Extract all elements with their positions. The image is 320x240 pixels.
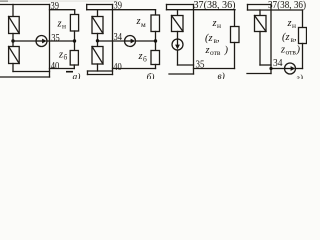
svg-text:,: , (294, 32, 297, 43)
svg-text:б: б (143, 55, 147, 64)
svg-text:40: 40 (51, 60, 60, 72)
wire fragment a (12, 64, 14, 72)
wire middle fragment a (47, 40, 75, 42)
resistor z_b box fragment b (151, 51, 160, 65)
resistor z_n box fragment a (70, 15, 78, 32)
svg-text:34: 34 (273, 57, 283, 69)
wire fragment v (234, 43, 236, 69)
wire bottom right fragment b (113, 68, 156, 70)
wire bottom right fragment v (194, 68, 235, 70)
svg-text:отв: отв (286, 48, 297, 57)
svg-text:,: , (217, 33, 220, 44)
svg-text:(z: (z (205, 33, 213, 44)
wire fragment b (97, 64, 99, 71)
svg-text:б: б (64, 53, 68, 62)
resistor z_n box fragment g (299, 28, 307, 44)
current source circle fragment v (172, 39, 183, 50)
svg-text:34: 34 (114, 31, 123, 43)
svg-text:z: z (212, 18, 217, 29)
svg-text:35: 35 (196, 59, 205, 71)
svg-text:39: 39 (51, 0, 60, 12)
svg-text:40: 40 (113, 61, 122, 73)
svg-text:б): б) (147, 72, 155, 79)
svg-text:н: н (62, 22, 66, 31)
wire right branch fragment g (302, 10, 304, 28)
resistor z_m box fragment b (151, 15, 160, 32)
svg-text:37(38, 36): 37(38, 36) (268, 0, 306, 11)
wire bottom left fragment b (88, 70, 113, 72)
svg-text:): ) (296, 45, 301, 56)
wire left chain top fragment b (97, 10, 99, 17)
wire left chain top fragment a (12, 5, 14, 17)
wire bottom left fragment a (13, 71, 50, 73)
svg-text:39: 39 (114, 0, 123, 12)
wire middle fragment b (136, 40, 156, 42)
svg-text:г): г) (296, 73, 303, 79)
load box diagonal fragment g (255, 16, 267, 32)
svg-text:а): а) (73, 72, 81, 80)
node 39 bus (vertical) fragment a (49, 5, 51, 78)
wire bottom left fragment v (178, 64, 194, 66)
wire fragment b (155, 32, 157, 51)
resistor z_b box fragment a (70, 51, 78, 66)
resistor z_n box fragment v (231, 27, 240, 43)
wire fragment v (177, 32, 179, 40)
junction dot fragment a (11, 39, 14, 42)
svg-text:z: z (138, 51, 143, 62)
wire fragment b (97, 34, 99, 47)
svg-text:z: z (136, 16, 141, 27)
wire fragment a (12, 34, 14, 47)
svg-text:н: н (217, 21, 221, 30)
wire bottom middle fragment g (271, 68, 285, 70)
wire fragment g (302, 44, 304, 69)
wire upper horizontal fragment b (87, 9, 156, 11)
wire top edge fragment b (87, 4, 113, 6)
svg-text:37(38, 36): 37(38, 36) (194, 0, 236, 11)
wire middle fragment b (98, 40, 125, 42)
wire fragment g (296, 68, 303, 70)
svg-text:м: м (141, 20, 146, 29)
svg-text:z: z (205, 45, 210, 56)
wire top edge fragment a (0, 4, 50, 6)
load box 2 fragment b (92, 47, 103, 65)
load box 1 diagonal fragment a (9, 17, 20, 34)
wire bottom left fragment g (260, 64, 271, 66)
wire jog fragment b (86, 5, 88, 10)
junction dot right fragment a (73, 39, 76, 42)
node 37 bus fragment g (270, 5, 272, 74)
wire bottom stub fragment v (169, 73, 194, 75)
svg-text:в): в) (218, 71, 225, 79)
wire right branch drop fragment a (74, 10, 76, 15)
svg-text:отв: отв (210, 48, 221, 57)
wire jog fragment g (247, 5, 249, 11)
current source circle fragment a (36, 36, 47, 47)
svg-text:(z: (z (282, 32, 290, 43)
load box 2 diagonal fragment a (9, 47, 20, 64)
current source arrow fragment v (177, 39, 178, 46)
load box 2 diagonal fragment b (92, 47, 103, 65)
svg-text:z: z (57, 19, 62, 30)
node 37 bus fragment v (193, 5, 195, 75)
wire right branch fragment v (234, 10, 236, 27)
wire right branch fragment b (155, 10, 157, 15)
junction dot right fragment b (154, 39, 157, 42)
wire upper horizontal fragment v (167, 9, 236, 11)
wire jog fragment v (166, 5, 168, 10)
wire bottom stub fragment a (0, 76, 50, 78)
junction dot fragment b (96, 39, 99, 42)
wire upper horizontal fragment g (248, 9, 303, 11)
wire bottom jog fragment b (87, 71, 89, 75)
load box 2 fragment a (9, 47, 20, 64)
load box fragment g (255, 16, 267, 32)
current source arrow fragment b (125, 40, 131, 41)
wire middle fragment a (13, 40, 36, 42)
load box 1 diagonal fragment b (92, 17, 103, 34)
wire fragment b (155, 65, 157, 69)
svg-text:z: z (287, 18, 292, 29)
svg-text:): ) (224, 45, 229, 56)
node 39 bus fragment b (112, 5, 114, 75)
load box 1 fragment a (9, 17, 20, 34)
load box diagonal fragment v (172, 16, 184, 32)
wire fragment a (74, 31, 76, 51)
wire fragment g (259, 32, 261, 66)
load box 1 fragment b (92, 17, 103, 34)
load box fragment v (172, 16, 184, 32)
wire top edge fragment g (248, 4, 272, 6)
wire fragment v (177, 50, 179, 65)
wire bottom stub fragment g (247, 73, 271, 75)
wire top edge fragment v (167, 4, 194, 6)
wire bottom stub fragment b (88, 74, 113, 76)
current source arrow fragment g (285, 68, 292, 69)
current source arrow fragment a (11, 39, 76, 44)
wire left chain top fragment v (177, 10, 179, 16)
artifact faint top edge line (0, 0, 8, 2)
artifact mark fragment a (66, 71, 73, 73)
wire fragment a (73, 65, 75, 69)
wire right top fragment a (50, 9, 75, 11)
wire bottom right fragment a (50, 68, 75, 70)
svg-text:35: 35 (51, 32, 60, 44)
current source circle fragment g (285, 63, 296, 74)
wire left chain top fragment g (259, 10, 261, 16)
junction dot fragment g (269, 67, 272, 70)
current source circle fragment b (125, 36, 136, 47)
svg-text:z: z (280, 45, 285, 56)
svg-text:н: н (292, 21, 296, 30)
svg-text:z: z (58, 50, 63, 61)
